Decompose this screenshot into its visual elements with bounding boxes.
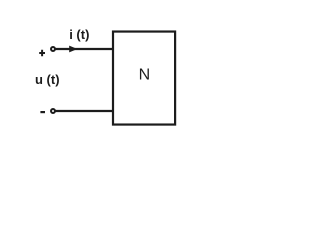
network box N [113, 32, 175, 125]
wire bottom (from - terminal to box) [55, 110, 114, 112]
terminal circle - [51, 109, 55, 113]
svg-text:N: N [139, 67, 151, 84]
terminal circle + [51, 47, 55, 51]
svg-text:i (t): i (t) [69, 27, 89, 42]
current arrow head [69, 46, 77, 53]
wire top (from + terminal to box) [55, 48, 114, 50]
svg-text:u (t): u (t) [35, 72, 60, 87]
minus sign [40, 111, 45, 113]
plus sign [39, 50, 45, 56]
